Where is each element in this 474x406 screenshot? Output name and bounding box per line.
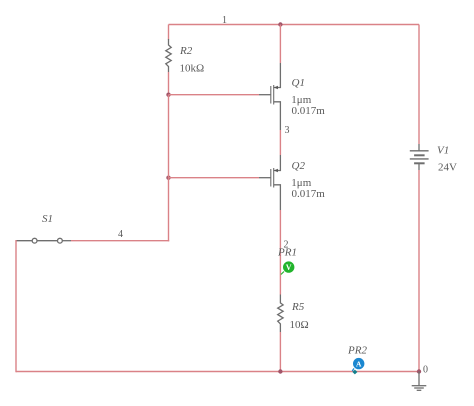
wire left column between gates bbox=[168, 95, 170, 178]
ground bbox=[412, 372, 427, 391]
probe PR2 pointer bbox=[352, 368, 354, 371]
svg-text:0.017m: 0.017m bbox=[292, 105, 326, 117]
svg-text:0: 0 bbox=[423, 365, 428, 376]
transistor Q2 bbox=[259, 155, 280, 210]
wire net 4 switch to left column bbox=[71, 240, 169, 242]
wire net 3 (Q1 source to Q2 drain) bbox=[279, 130, 281, 155]
probe PR1 circle V bbox=[283, 261, 294, 272]
probe PR2 circle A bbox=[353, 358, 364, 369]
wire Q2 source to probe/R5 bbox=[279, 210, 281, 295]
svg-text:1: 1 bbox=[222, 15, 227, 26]
junction node R2 / Q1 gate bbox=[166, 93, 170, 97]
svg-text:Q1: Q1 bbox=[292, 77, 305, 89]
switch S1 bbox=[16, 238, 71, 243]
wire left column R2 top stub bbox=[168, 25, 170, 40]
wire Q1 gate horizontal bbox=[169, 94, 260, 96]
svg-text:3: 3 bbox=[285, 125, 290, 136]
junction R5 bottom rail bbox=[278, 369, 282, 373]
svg-text:R2: R2 bbox=[179, 45, 193, 57]
svg-text:4: 4 bbox=[118, 229, 123, 240]
svg-text:PR2: PR2 bbox=[347, 345, 367, 357]
wire top rail net 1 bbox=[169, 24, 420, 26]
probe PR2 arrow marker on wire bbox=[352, 370, 357, 375]
junction ground corner bbox=[417, 369, 421, 373]
svg-text:10kΩ: 10kΩ bbox=[180, 63, 205, 75]
resistor R5 bbox=[278, 295, 283, 333]
junction top of middle column bbox=[278, 22, 282, 26]
wire left edge vertical bbox=[15, 240, 17, 372]
svg-text:0.017m: 0.017m bbox=[292, 188, 326, 200]
svg-text:V1: V1 bbox=[437, 145, 449, 157]
svg-text:Q2: Q2 bbox=[292, 160, 306, 172]
svg-text:V: V bbox=[286, 263, 292, 272]
wire left column gate tap to switch row bbox=[168, 178, 170, 242]
transistor Q1 bbox=[259, 63, 280, 130]
wire R5 bottom to rail bbox=[279, 332, 281, 372]
wire right column top (net1 to V1) bbox=[418, 25, 420, 145]
probe PR1 pointer bbox=[281, 272, 284, 275]
svg-text:24V: 24V bbox=[438, 161, 457, 173]
svg-text:S1: S1 bbox=[42, 213, 53, 225]
svg-text:10Ω: 10Ω bbox=[290, 319, 309, 331]
wire middle column top (net1 to Q1 drain) bbox=[279, 25, 281, 64]
wire left column R2 bottom to junction bbox=[168, 72, 170, 95]
junction node Q2 gate tap bbox=[166, 176, 170, 180]
svg-text:R5: R5 bbox=[291, 301, 305, 313]
wire bottom rail net 0 bbox=[16, 371, 419, 373]
resistor R2 bbox=[166, 39, 171, 72]
battery V1 bbox=[410, 144, 429, 170]
svg-text:A: A bbox=[356, 359, 362, 368]
wire right column bottom (V1 to rail) bbox=[418, 170, 420, 372]
svg-text:PR1: PR1 bbox=[277, 247, 297, 259]
wire Q2 gate horizontal bbox=[169, 177, 260, 179]
